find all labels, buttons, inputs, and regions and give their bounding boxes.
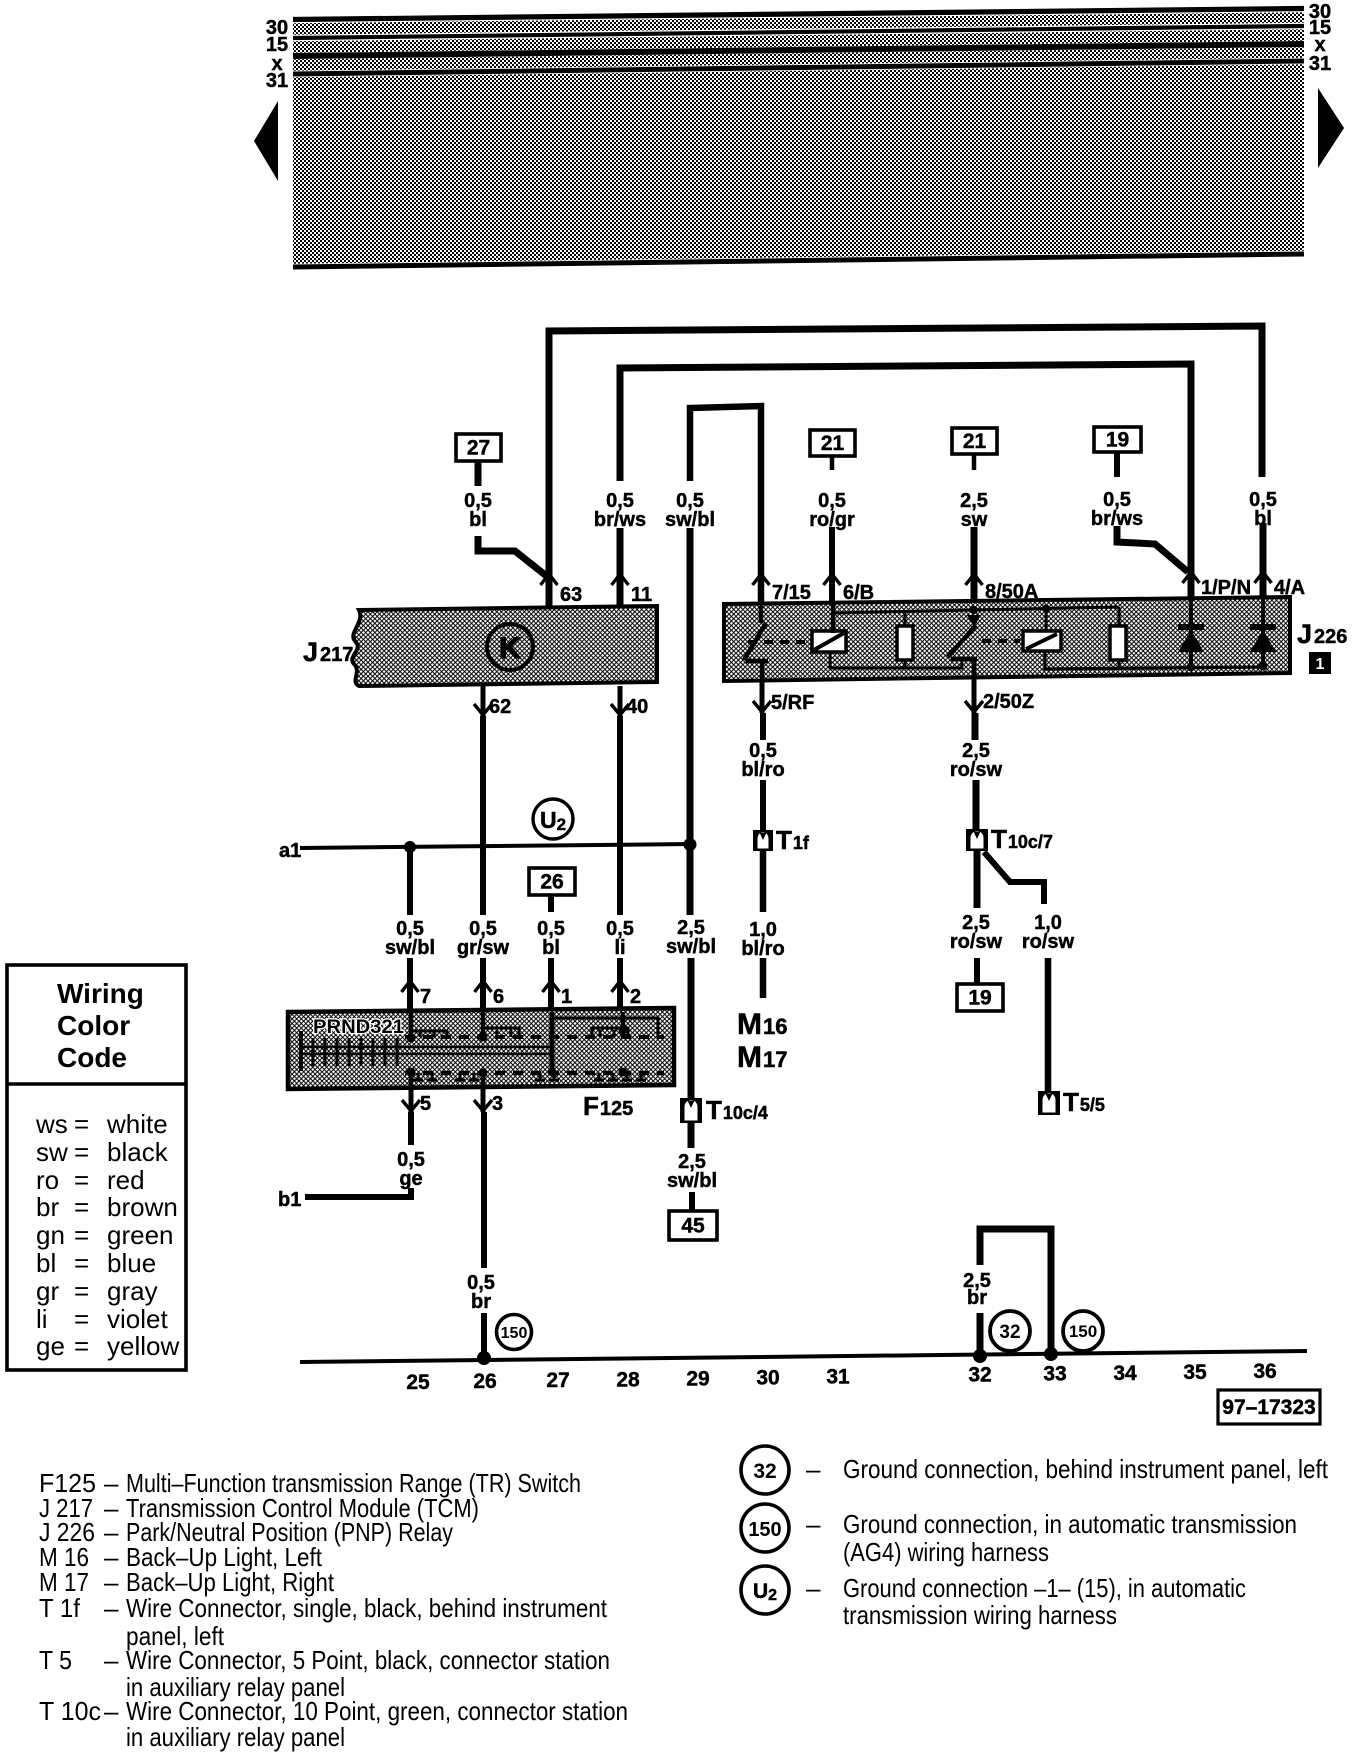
relay coil 1 <box>748 640 810 644</box>
terminal 4/A <box>1255 572 1272 583</box>
svg-text:2: 2 <box>630 986 641 1008</box>
terminal box 21 (sw) <box>952 428 997 454</box>
svg-text:sw/bl: sw/bl <box>667 1170 717 1192</box>
TCM J217 box <box>352 606 657 686</box>
svg-text:ge: ge <box>36 1331 65 1361</box>
terminal 63 <box>541 574 558 585</box>
svg-text:30: 30 <box>756 1367 779 1390</box>
svg-text:violet: violet <box>107 1304 168 1334</box>
svg-text:bl/ro: bl/ro <box>741 938 784 960</box>
bus bar 15 <box>293 26 1304 38</box>
relay switch contact 2 <box>951 657 977 662</box>
svg-text:gr: gr <box>36 1276 59 1306</box>
svg-text:–: – <box>104 1696 119 1726</box>
svg-text:b1: b1 <box>278 1189 301 1211</box>
wire: coil1/resistor1 bottom rail <box>830 651 962 668</box>
svg-text:27: 27 <box>546 1369 569 1392</box>
left direction arrow <box>254 101 278 181</box>
svg-text:=: = <box>74 1304 89 1334</box>
svg-text:br: br <box>967 1287 987 1309</box>
svg-text:Color: Color <box>57 1010 130 1041</box>
svg-text:–: – <box>104 1645 119 1675</box>
svg-text:7/15: 7/15 <box>772 582 811 604</box>
svg-text:29: 29 <box>686 1367 709 1390</box>
svg-text:150: 150 <box>1069 1322 1097 1341</box>
svg-text:150: 150 <box>501 1325 528 1342</box>
svg-text:bl: bl <box>1254 508 1272 530</box>
svg-text:ro/sw: ro/sw <box>1022 931 1075 953</box>
svg-text:gr/sw: gr/sw <box>457 937 510 959</box>
drawing number box 97-17323 <box>1218 1390 1320 1424</box>
svg-text:K: K <box>499 632 521 665</box>
svg-text:Ground connection –1– (15), in: Ground connection –1– (15), in automatic <box>843 1573 1246 1603</box>
ground loop wire 2,5 br <box>980 1229 1051 1355</box>
svg-text:=: = <box>74 1331 89 1361</box>
svg-text:br: br <box>471 1291 491 1313</box>
wire 0,5 br down <box>481 1112 487 1268</box>
svg-text:ro/sw: ro/sw <box>950 931 1003 953</box>
svg-text:white: white <box>106 1109 168 1139</box>
diode D2 <box>1261 598 1265 667</box>
wire stub 27 <box>475 461 482 486</box>
svg-text:bl: bl <box>469 509 487 531</box>
wire 8/50A <box>971 527 978 606</box>
terminal box 19 <box>1094 427 1141 452</box>
svg-text:–: – <box>806 1454 821 1484</box>
ground 32 legend <box>741 1446 789 1494</box>
svg-text:33: 33 <box>1043 1363 1066 1386</box>
ground symbol U2 <box>533 799 573 839</box>
node b1 <box>305 1188 411 1197</box>
svg-text:Wiring: Wiring <box>57 978 144 1009</box>
wire jog 27 to term 63 <box>478 536 549 578</box>
svg-text:32: 32 <box>753 1460 776 1483</box>
resistor R2 <box>1118 607 1121 626</box>
svg-text:ro/sw: ro/sw <box>950 759 1003 781</box>
terminal 5/RF <box>760 681 765 713</box>
wire 2,5 sw/bl main <box>687 528 694 845</box>
terminal 8/50A <box>966 574 983 585</box>
svg-text:=: = <box>74 1248 89 1278</box>
svg-text:li: li <box>614 937 625 959</box>
relay switch contact 1 <box>759 606 764 623</box>
svg-text:brown: brown <box>107 1192 178 1222</box>
svg-text:yellow: yellow <box>107 1331 179 1361</box>
diode D1 <box>1189 599 1193 668</box>
svg-text:PRND321: PRND321 <box>313 1017 404 1038</box>
terminal 6/B <box>824 574 841 585</box>
wire 1,0 ro/sw to T5/5 <box>1045 958 1052 1091</box>
svg-text:28: 28 <box>616 1368 640 1391</box>
svg-text:br/ws: br/ws <box>594 509 646 531</box>
wire stub 19 <box>1114 452 1120 477</box>
ground symbol 32 <box>990 1311 1030 1351</box>
svg-text:6: 6 <box>493 986 504 1008</box>
svg-text:gn: gn <box>36 1220 65 1250</box>
svg-text:–: – <box>806 1573 821 1603</box>
svg-text:T 10c: T 10c <box>39 1696 101 1726</box>
terminal 1 through-wire <box>550 1012 555 1073</box>
svg-text:a1: a1 <box>279 840 301 862</box>
terminal box 45 <box>669 1211 717 1240</box>
svg-text:32: 32 <box>968 1364 991 1387</box>
wire connector T10c/7 <box>966 829 988 851</box>
svg-text:T 5: T 5 <box>39 1645 72 1675</box>
svg-text:35: 35 <box>1183 1361 1207 1384</box>
PNP relay J226 box <box>724 597 1290 681</box>
svg-text:45: 45 <box>681 1215 705 1238</box>
svg-text:Wire Connector, 5 Point, black: Wire Connector, 5 Point, black, connecto… <box>126 1645 610 1675</box>
wire W3: sw/bl up-and-over to 7/15 <box>690 406 761 607</box>
terminal 7/15 <box>753 574 770 585</box>
svg-text:br: br <box>36 1192 59 1222</box>
svg-text:5/RF: 5/RF <box>771 692 814 714</box>
svg-text:=: = <box>74 1165 89 1195</box>
bus bar x <box>293 44 1304 56</box>
svg-text:transmission wiring harness: transmission wiring harness <box>843 1600 1117 1630</box>
J226 index square 1 <box>1309 652 1331 674</box>
svg-text:21: 21 <box>963 430 987 453</box>
svg-text:(AG4) wiring harness: (AG4) wiring harness <box>843 1537 1049 1567</box>
svg-text:red: red <box>107 1165 145 1195</box>
svg-text:sw: sw <box>36 1137 68 1167</box>
junction a1/sw-bl <box>404 841 416 853</box>
wire 2,5 sw/bl to T10c/4 <box>680 1098 702 1123</box>
selector comb symbol <box>300 1046 553 1049</box>
svg-text:Ground connection, behind inst: Ground connection, behind instrument pan… <box>843 1454 1329 1484</box>
wire 2,5 ro/sw <box>972 713 979 740</box>
lower contact row <box>405 1071 664 1075</box>
bus bar 31 <box>293 61 1304 74</box>
stubs into rows <box>409 1012 414 1038</box>
svg-text:=: = <box>74 1220 89 1250</box>
svg-text:150: 150 <box>748 1519 781 1541</box>
svg-text:T 1f: T 1f <box>39 1593 81 1623</box>
svg-text:–: – <box>104 1593 119 1623</box>
svg-text:sw/bl: sw/bl <box>666 936 716 958</box>
right direction arrow <box>1318 88 1344 168</box>
coil2 top stub <box>1045 609 1048 631</box>
wire below T1f <box>760 851 767 912</box>
terminal 11 <box>612 574 629 585</box>
svg-text:34: 34 <box>1113 1362 1137 1385</box>
svg-text:1: 1 <box>561 986 572 1008</box>
svg-text:ro: ro <box>36 1165 59 1195</box>
terminal 1/P/N <box>1183 572 1200 583</box>
terminal 62 <box>481 686 486 716</box>
svg-text:31: 31 <box>1309 53 1331 75</box>
wire 0,5 bl/ro <box>760 713 766 740</box>
svg-text:sw/bl: sw/bl <box>385 937 435 959</box>
top bus band <box>293 8 1304 269</box>
svg-text:62: 62 <box>489 696 511 718</box>
svg-text:=: = <box>74 1109 89 1139</box>
stub to 45 <box>689 1192 695 1211</box>
svg-text:–: – <box>806 1509 821 1539</box>
svg-text:3: 3 <box>492 1093 503 1115</box>
terminal 40 <box>618 686 623 716</box>
svg-text:Wire Connector, single, black,: Wire Connector, single, black, behind in… <box>126 1593 608 1623</box>
svg-text:bl: bl <box>36 1248 56 1278</box>
svg-text:97–17323: 97–17323 <box>1222 1396 1315 1419</box>
svg-text:gray: gray <box>107 1276 158 1306</box>
svg-text:31: 31 <box>826 1366 850 1389</box>
svg-text:=: = <box>74 1276 89 1306</box>
svg-text:black: black <box>107 1137 169 1167</box>
band bottom edge <box>293 254 1304 267</box>
bus bar 30 <box>293 9 1304 20</box>
svg-text:in auxiliary relay panel: in auxiliary relay panel <box>126 1722 345 1752</box>
svg-text:1: 1 <box>1316 656 1325 673</box>
svg-text:bl: bl <box>542 937 560 959</box>
stub below 26 <box>548 895 554 912</box>
svg-text:green: green <box>107 1220 174 1250</box>
wire jog 19 to 1/P/N <box>1117 526 1188 572</box>
svg-text:21: 21 <box>821 432 845 455</box>
branch wire to T5/5 <box>984 852 1044 904</box>
wire W2: term 11 to 1/P/N top run <box>620 364 1191 601</box>
terminal box 26 <box>529 868 575 895</box>
svg-text:36: 36 <box>1253 1360 1276 1383</box>
wire sw/bl from a1 <box>407 847 413 915</box>
svg-text:blue: blue <box>107 1248 156 1278</box>
svg-text:sw/bl: sw/bl <box>665 509 715 531</box>
bottom rail 2 <box>1045 651 1266 669</box>
op-amp K symbol U-circle <box>487 624 533 670</box>
svg-text:32: 32 <box>999 1322 1020 1343</box>
wire li (40 to 2) <box>617 716 623 915</box>
svg-text:bl/ro: bl/ro <box>741 759 784 781</box>
svg-text:Code: Code <box>57 1042 127 1073</box>
wiring color code legend box <box>7 965 186 1370</box>
wire stub 21b <box>972 454 977 470</box>
svg-text:19: 19 <box>1106 429 1129 452</box>
terminal 3 <box>481 1089 486 1112</box>
wire stub 21a <box>830 456 835 470</box>
ground symbol 150 left <box>497 1315 532 1350</box>
svg-text:40: 40 <box>626 696 648 718</box>
contact bridges upper <box>411 1031 447 1039</box>
node line A <box>833 610 974 613</box>
svg-text:19: 19 <box>968 987 991 1010</box>
wire connector T5/5 <box>1038 1091 1060 1115</box>
svg-text:ws: ws <box>35 1109 68 1139</box>
wire gr/sw (62 to 3) <box>480 716 486 915</box>
terminal box 21 (ro/gr) <box>810 430 855 456</box>
svg-text:26: 26 <box>473 1370 496 1393</box>
stub to box 19 <box>974 958 980 984</box>
svg-text:li: li <box>36 1304 48 1334</box>
svg-text:=: = <box>74 1192 89 1222</box>
terminal box 27 <box>456 434 501 461</box>
relay coil 2 <box>982 639 1020 643</box>
ground U2 legend <box>741 1566 789 1614</box>
coil1 top stub <box>831 604 836 633</box>
node a1 rail <box>300 844 691 848</box>
wire W1: term 63 to 4/A top run <box>549 326 1262 609</box>
svg-text:11: 11 <box>631 584 652 606</box>
node line B <box>974 607 1119 610</box>
svg-text:2/50Z: 2/50Z <box>983 691 1034 713</box>
ground 150 legend <box>741 1504 789 1552</box>
svg-text:ge: ge <box>399 1168 422 1190</box>
upper contact row <box>405 1035 664 1039</box>
svg-text:=: = <box>74 1137 89 1167</box>
svg-text:7: 7 <box>420 986 431 1008</box>
svg-text:27: 27 <box>467 437 490 460</box>
wire below T10c/7 <box>974 851 981 908</box>
svg-text:63: 63 <box>560 584 582 606</box>
wire connector T1f <box>753 830 773 851</box>
bottom track line <box>300 1351 1307 1362</box>
ground symbol 150 right <box>1063 1311 1103 1351</box>
wire 0,5 ge <box>408 1112 414 1145</box>
TR switch F125 box <box>288 1008 674 1089</box>
svg-text:Ground connection, in automati: Ground connection, in automatic transmis… <box>843 1509 1297 1539</box>
terminal 5 <box>409 1089 414 1112</box>
svg-text:26: 26 <box>540 871 563 894</box>
svg-text:25: 25 <box>406 1371 430 1394</box>
wire 6/B <box>829 527 835 606</box>
svg-text:5: 5 <box>420 1093 431 1115</box>
svg-text:31: 31 <box>266 70 288 92</box>
terminal box 19 lower <box>957 984 1003 1011</box>
contact bridges lower <box>417 1073 420 1080</box>
internal L wire <box>552 1018 658 1037</box>
terminal 2/50Z <box>972 674 977 713</box>
